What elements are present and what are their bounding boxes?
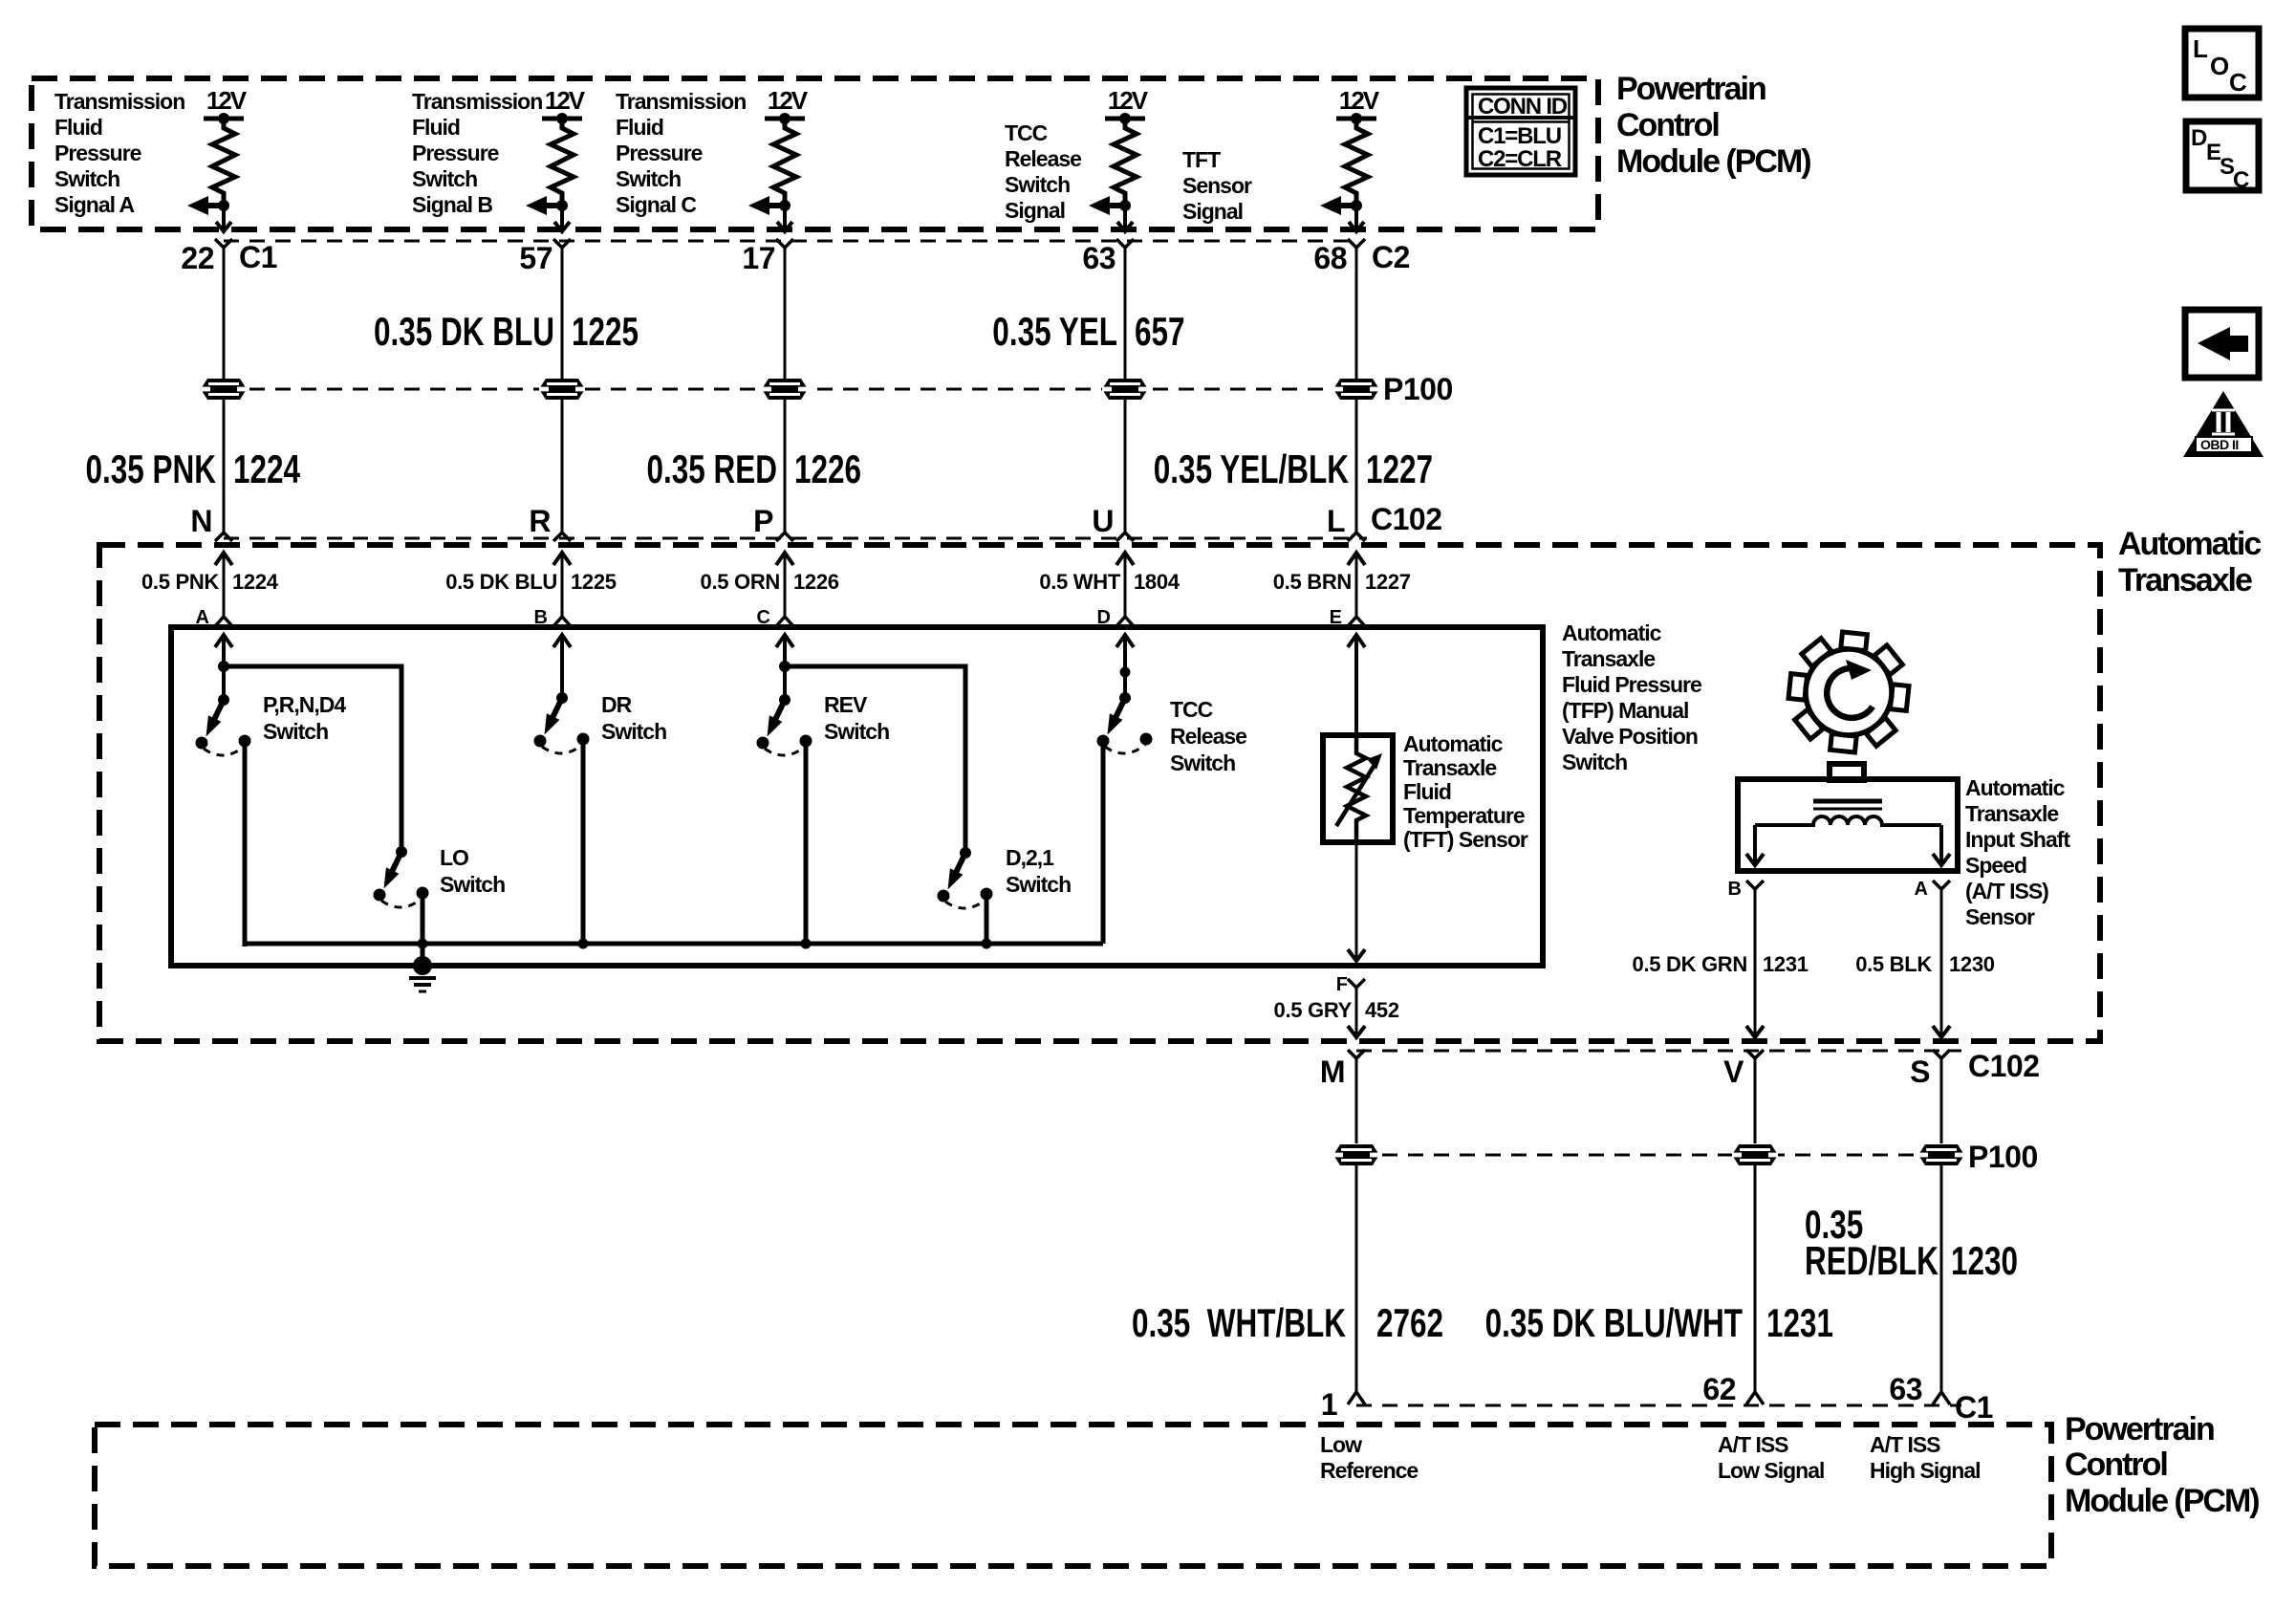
coil lead B with arrow bbox=[1746, 825, 1764, 865]
label: A/T ISS High Signal bbox=[1870, 1432, 1981, 1483]
male pin arrow into transaxle, wire 3 bbox=[776, 553, 793, 617]
wire label 0.35 YEL 657 bbox=[992, 309, 1184, 355]
label: Automatic Transaxle Fluid Temperature (TFT) Sensor bbox=[1403, 731, 1528, 852]
signal tap node wire 3 bbox=[779, 200, 791, 211]
svg-text:Valve Position: Valve Position bbox=[1562, 724, 1698, 749]
sensor core lines bbox=[1813, 801, 1882, 809]
label: DR Switch bbox=[601, 692, 666, 744]
ground bbox=[409, 956, 436, 991]
svg-text:0.35 YEL: 0.35 YEL bbox=[992, 309, 1117, 355]
svg-text:Signal: Signal bbox=[1005, 198, 1065, 223]
svg-text:L: L bbox=[1327, 504, 1345, 538]
C102 pin N female connector symbol bbox=[215, 533, 232, 541]
svg-text:22: 22 bbox=[181, 241, 214, 275]
svg-text:TCC: TCC bbox=[1170, 697, 1213, 722]
wire LO right contact to ground bus bbox=[421, 893, 425, 944]
wire pin B to DR switch bbox=[560, 635, 564, 698]
ground bus inside TFP switch bbox=[245, 942, 1103, 946]
label: Transmission Fluid Pressure Switch Signal C bbox=[616, 89, 746, 217]
svg-text:F: F bbox=[1336, 974, 1348, 995]
svg-text:Signal B: Signal B bbox=[412, 192, 492, 217]
svg-text:63: 63 bbox=[1889, 1372, 1922, 1406]
svg-text:12V: 12V bbox=[206, 86, 248, 115]
label: Powertrain Control Module (PCM) bottom right bbox=[2065, 1411, 2259, 1519]
wire D,2,1 right contact to ground bus bbox=[985, 894, 989, 944]
svg-text:12V: 12V bbox=[1339, 86, 1380, 115]
signal arrow (to left) wire 2 bbox=[526, 196, 562, 215]
wire REV right contact to ground bus bbox=[804, 741, 809, 944]
svg-text:(A/T ISS): (A/T ISS) bbox=[1965, 879, 2048, 903]
svg-text:Switch: Switch bbox=[824, 719, 889, 744]
signal arrow (to left) wire 4 bbox=[1089, 196, 1125, 215]
svg-text:R: R bbox=[529, 504, 551, 538]
label: TFT Sensor Signal bbox=[1182, 147, 1252, 224]
back arrow button icon bbox=[2185, 310, 2259, 378]
C102 pin V female connector symbol bbox=[1746, 1050, 1764, 1143]
wire label 0.5 BRN 1227 bbox=[1273, 570, 1411, 594]
svg-text:Fluid: Fluid bbox=[1403, 779, 1451, 804]
label: REV Switch bbox=[824, 692, 889, 744]
svg-text:M: M bbox=[1320, 1055, 1345, 1089]
svg-text:657: 657 bbox=[1135, 309, 1185, 355]
svg-text:Pressure: Pressure bbox=[412, 141, 499, 165]
LO switch bbox=[374, 846, 429, 907]
12V node bar wire 2 bbox=[542, 113, 582, 124]
svg-text:0.5 BRN: 0.5 BRN bbox=[1273, 570, 1352, 594]
svg-text:Fluid: Fluid bbox=[412, 115, 460, 140]
wire segment P100 to C102, wire 2 bbox=[561, 400, 564, 533]
label: A/T ISS Low Signal bbox=[1718, 1432, 1824, 1483]
C102 pin M female connector symbol bbox=[1348, 1050, 1365, 1143]
svg-text:RED/BLK: RED/BLK bbox=[1805, 1238, 1939, 1284]
male pin arrow into TFP switch, pin C bbox=[776, 635, 793, 647]
svg-text:Release: Release bbox=[1170, 724, 1246, 749]
svg-text:Switch: Switch bbox=[54, 166, 119, 191]
A/T ISS sensor box bbox=[1738, 779, 1958, 871]
arrow wire F out of transaxle box bbox=[1348, 1026, 1365, 1037]
wire pin A to P,R,N,D4 switch bbox=[222, 635, 226, 700]
svg-text:D,2,1: D,2,1 bbox=[1006, 845, 1054, 870]
arrow wire B out of transaxle box bbox=[1746, 1026, 1764, 1037]
branch wire to D,2,1 switch bbox=[785, 666, 965, 853]
svg-text:D: D bbox=[2191, 125, 2207, 151]
svg-text:0.35 DK BLU/WHT: 0.35 DK BLU/WHT bbox=[1485, 1300, 1744, 1346]
svg-text:68: 68 bbox=[1313, 241, 1347, 275]
resistor R2 (pull-up inside PCM) bbox=[551, 119, 574, 201]
wire TCC left contact to ground bus bbox=[1101, 743, 1106, 944]
svg-text:Transaxle: Transaxle bbox=[1965, 801, 2058, 826]
pin 17 female connector symbol bbox=[776, 239, 793, 248]
svg-text:Switch: Switch bbox=[1006, 872, 1071, 897]
svg-text:Module (PCM): Module (PCM) bbox=[2065, 1483, 2259, 1519]
svg-text:C: C bbox=[2233, 167, 2249, 193]
svg-text:0.5 WHT: 0.5 WHT bbox=[1039, 570, 1121, 594]
male pin arrow into transaxle, wire 4 bbox=[1116, 553, 1134, 617]
label: Powertrain Control Module (PCM) top right bbox=[1616, 71, 1810, 180]
wire label 0.35 RED 1226 bbox=[646, 446, 861, 492]
svg-text:U: U bbox=[1092, 504, 1114, 538]
svg-text:Transmission: Transmission bbox=[616, 89, 746, 114]
PCM pin 62 male connector symbol bbox=[1746, 1392, 1764, 1404]
12V node bar wire 4 bbox=[1105, 113, 1145, 124]
12V node bar wire 1 bbox=[204, 113, 244, 124]
C102 pin P female connector symbol bbox=[776, 533, 793, 541]
svg-text:63: 63 bbox=[1082, 241, 1116, 275]
wire segment pin row to P100, wire 4 bbox=[1124, 248, 1127, 379]
TFP switch pin E female connector symbol bbox=[1348, 617, 1365, 626]
svg-text:(TFT) Sensor: (TFT) Sensor bbox=[1403, 827, 1528, 852]
wire P,R,N,D4 right contact to ground bus bbox=[243, 741, 248, 946]
svg-text:1227: 1227 bbox=[1365, 570, 1411, 594]
wire segment P100 to C102, wire 4 bbox=[1124, 400, 1127, 533]
label: Automatic Transaxle Fluid Pressure (TFP) Manual Valve Position Switch bbox=[1562, 620, 1701, 774]
svg-text:0.5 DK BLU: 0.5 DK BLU bbox=[445, 570, 557, 594]
thermistor (TFT) symbol bbox=[1336, 738, 1382, 839]
wire label 0.5 BLK 1230 bbox=[1855, 952, 1995, 976]
svg-text:57: 57 bbox=[519, 241, 552, 275]
svg-text:0.35 PNK: 0.35 PNK bbox=[85, 446, 216, 492]
svg-text:(TFP) Manual: (TFP) Manual bbox=[1562, 698, 1688, 723]
svg-text:0.35 YEL/BLK: 0.35 YEL/BLK bbox=[1154, 446, 1349, 492]
svg-text:1230: 1230 bbox=[1951, 1238, 2018, 1284]
svg-text:C1: C1 bbox=[239, 240, 277, 274]
P100 harness dashed line bbox=[224, 388, 1356, 391]
P,R,N,D4 switch bbox=[196, 694, 251, 755]
wire pin D to TCC release switch bbox=[1123, 635, 1127, 698]
coil lead A with arrow bbox=[1933, 825, 1950, 865]
pin 68 female connector symbol bbox=[1348, 239, 1365, 248]
svg-text:Transmission: Transmission bbox=[54, 89, 184, 114]
svg-text:Switch: Switch bbox=[1562, 750, 1627, 774]
node on TCC wire bbox=[1120, 667, 1131, 678]
inline connector P100 terminal, wire 4 bbox=[1102, 379, 1148, 400]
wire segment P100 to PCM, low ref bbox=[1355, 1165, 1358, 1391]
svg-text:Transmission: Transmission bbox=[412, 89, 542, 114]
ground bus junction bbox=[578, 939, 589, 949]
wire label 0.35 PNK 1224 bbox=[85, 446, 300, 492]
svg-text:P: P bbox=[753, 504, 773, 538]
inline connector P100 terminal, wire V bbox=[1732, 1144, 1778, 1165]
label: Automatic Transaxle Input Shaft Speed (A/T ISS) Sensor bbox=[1965, 775, 2070, 929]
svg-text:Control: Control bbox=[1616, 107, 1719, 143]
inline connector P100 terminal, wire 1 bbox=[201, 379, 247, 400]
svg-text:Automatic: Automatic bbox=[1403, 731, 1504, 756]
label: LO Switch bbox=[440, 845, 505, 897]
A/T ISS sensor mounting tab bbox=[1830, 764, 1864, 780]
svg-text:Switch: Switch bbox=[1005, 172, 1070, 197]
svg-text:17: 17 bbox=[742, 241, 775, 275]
wire segment P100 to C102, wire 3 bbox=[784, 400, 787, 533]
DESC button icon bbox=[2186, 121, 2259, 193]
connector line C1 bottom (thin dashed) bbox=[1356, 1404, 1961, 1407]
svg-text:1227: 1227 bbox=[1366, 446, 1433, 492]
ground bus junction bbox=[982, 939, 992, 949]
wire segment pin row to P100, wire 1 bbox=[223, 248, 226, 379]
input shaft gear icon bbox=[1788, 632, 1909, 752]
svg-text:O: O bbox=[2210, 52, 2229, 80]
C102 pin S female connector symbol bbox=[1933, 1050, 1950, 1143]
svg-text:0.5 ORN: 0.5 ORN bbox=[701, 570, 780, 594]
wire label 0.5 DK GRN 1231 bbox=[1633, 952, 1809, 976]
svg-text:0.35 WHT/BLK: 0.35 WHT/BLK bbox=[1132, 1300, 1346, 1346]
signal tap node wire 2 bbox=[556, 200, 568, 211]
svg-text:Pressure: Pressure bbox=[616, 141, 703, 165]
svg-text:Automatic: Automatic bbox=[1965, 775, 2066, 800]
svg-text:Speed: Speed bbox=[1965, 853, 2026, 878]
male pin arrow into TFP switch, pin A bbox=[215, 635, 232, 647]
Automatic Transaxle dashed box bbox=[99, 545, 2100, 1041]
svg-text:TFT: TFT bbox=[1182, 147, 1221, 172]
wire label 0.35 WHT/BLK 2762 bbox=[1132, 1300, 1443, 1346]
svg-text:C2: C2 bbox=[1372, 240, 1410, 274]
svg-text:1224: 1224 bbox=[233, 446, 300, 492]
inline connector P100 terminal, wire 2 bbox=[539, 379, 585, 400]
svg-text:Input Shaft: Input Shaft bbox=[1965, 827, 2070, 852]
LOC button icon bbox=[2185, 29, 2259, 98]
C102 pin L female connector symbol bbox=[1348, 533, 1365, 541]
wire pin E to TFT sensor bbox=[1354, 635, 1358, 735]
TCC release switch bbox=[1097, 692, 1153, 753]
wire label 0.35 YEL/BLK 1227 bbox=[1154, 446, 1433, 492]
svg-text:0.5 BLK: 0.5 BLK bbox=[1855, 952, 1932, 976]
svg-text:1230: 1230 bbox=[1949, 952, 1995, 976]
svg-text:Automatic: Automatic bbox=[1562, 620, 1662, 645]
arrow wire A out of transaxle box bbox=[1933, 1026, 1950, 1037]
label: P,R,N,D4 Switch bbox=[263, 692, 346, 744]
svg-text:Switch: Switch bbox=[601, 719, 666, 744]
label: Transmission Fluid Pressure Switch Signal B bbox=[412, 89, 542, 217]
pin exit arrow wire 2 bbox=[554, 206, 570, 231]
svg-text:L: L bbox=[2193, 34, 2208, 63]
svg-text:A/T ISS: A/T ISS bbox=[1718, 1432, 1788, 1457]
svg-text:Temperature: Temperature bbox=[1403, 803, 1525, 828]
label: D,2,1 Switch bbox=[1006, 845, 1071, 897]
wire label 0.35 DK BLU 1225 bbox=[374, 309, 639, 355]
svg-text:452: 452 bbox=[1365, 998, 1399, 1022]
Powertrain Control Module (PCM) bottom box bbox=[95, 1425, 2051, 1566]
svg-text:C1=BLU: C1=BLU bbox=[1478, 123, 1561, 149]
svg-text:Sensor: Sensor bbox=[1182, 173, 1252, 198]
svg-text:P100: P100 bbox=[1383, 372, 1453, 406]
svg-text:Transaxle: Transaxle bbox=[2118, 562, 2252, 598]
TFT sensor box bbox=[1323, 735, 1393, 842]
svg-text:Switch: Switch bbox=[1170, 751, 1235, 775]
male pin arrow into transaxle, wire 2 bbox=[553, 553, 571, 617]
svg-text:Release: Release bbox=[1005, 146, 1081, 171]
DR switch bbox=[534, 692, 590, 753]
svg-text:A/T ISS: A/T ISS bbox=[1870, 1432, 1940, 1457]
label: TCC Release Switch bbox=[1170, 697, 1246, 775]
svg-text:62: 62 bbox=[1702, 1372, 1736, 1406]
signal tap node wire 4 bbox=[1119, 200, 1131, 211]
junction node at P,R,N,D4 switch bbox=[218, 661, 229, 672]
wire segment P100 to C102, wire 5 bbox=[1355, 400, 1358, 533]
svg-text:V: V bbox=[1723, 1055, 1744, 1089]
svg-text:C1: C1 bbox=[1955, 1390, 1993, 1425]
male pin arrow into transaxle, wire 1 bbox=[215, 553, 232, 617]
svg-text:0.5 GRY: 0.5 GRY bbox=[1274, 998, 1353, 1022]
svg-text:Reference: Reference bbox=[1320, 1458, 1418, 1483]
svg-text:1: 1 bbox=[1321, 1387, 1337, 1422]
pin exit arrow wire 4 bbox=[1117, 206, 1133, 231]
REV switch bbox=[757, 694, 812, 755]
pin 22 female connector symbol bbox=[215, 239, 232, 248]
svg-text:Signal: Signal bbox=[1182, 199, 1243, 224]
pin exit arrow wire 3 bbox=[777, 206, 792, 231]
signal arrow (to left) wire 3 bbox=[748, 196, 785, 215]
svg-text:Pressure: Pressure bbox=[54, 141, 141, 165]
inline connector P100 terminal, wire 3 bbox=[762, 379, 808, 400]
svg-text:12V: 12V bbox=[1108, 86, 1149, 115]
svg-text:Switch: Switch bbox=[412, 166, 477, 191]
svg-text:Module (PCM): Module (PCM) bbox=[1616, 143, 1810, 180]
svg-text:C102: C102 bbox=[1371, 502, 1442, 536]
PCM pin 63 male connector symbol bbox=[1933, 1392, 1950, 1404]
svg-text:REV: REV bbox=[824, 692, 868, 717]
connector line C1/C2 (thin dashed) bbox=[224, 240, 1356, 243]
male pin arrow into TFP switch, pin E bbox=[1348, 635, 1365, 647]
sensor pickup coil bbox=[1755, 816, 1941, 825]
TFP manual valve position switch box bbox=[171, 627, 1543, 966]
TFP switch pin D female connector symbol bbox=[1116, 617, 1134, 626]
signal arrow (to left) wire 5 bbox=[1320, 196, 1356, 215]
wire segment pin row to P100, wire 3 bbox=[784, 248, 787, 379]
svg-text:A: A bbox=[1915, 879, 1928, 900]
svg-text:1225: 1225 bbox=[572, 309, 639, 355]
label: Transmission Fluid Pressure Switch Signal A bbox=[54, 89, 184, 217]
svg-text:Switch: Switch bbox=[616, 166, 681, 191]
svg-text:Powertrain: Powertrain bbox=[1616, 71, 1765, 107]
TFP switch pin F female connector symbol bbox=[1348, 979, 1365, 1037]
12V node bar wire 3 bbox=[765, 113, 805, 124]
C102 pin U female connector symbol bbox=[1116, 533, 1134, 541]
svg-text:C: C bbox=[2229, 68, 2247, 97]
wire segment P100 to PCM, ISS low bbox=[1754, 1165, 1757, 1391]
svg-text:CONN ID: CONN ID bbox=[1478, 94, 1568, 120]
svg-text:Automatic: Automatic bbox=[2118, 526, 2261, 562]
svg-text:C2=CLR: C2=CLR bbox=[1478, 146, 1562, 172]
male pin arrow into TFP switch, pin B bbox=[553, 635, 571, 647]
ground bus junction bbox=[801, 939, 812, 949]
svg-text:Fluid: Fluid bbox=[616, 115, 663, 140]
wire label 0.5 ORN 1226 bbox=[701, 570, 839, 594]
svg-text:Switch: Switch bbox=[440, 872, 505, 897]
svg-text:OBD II: OBD II bbox=[2200, 437, 2239, 452]
connector line C102 (thin dashed) bbox=[224, 537, 1367, 540]
label: TCC Release Switch Signal bbox=[1005, 120, 1081, 223]
svg-text:C102: C102 bbox=[1968, 1049, 2040, 1083]
svg-text:0.35 DK BLU: 0.35 DK BLU bbox=[374, 309, 554, 355]
svg-text:Signal C: Signal C bbox=[616, 192, 696, 217]
P100 harness dashed line bottom bbox=[1356, 1154, 1941, 1157]
svg-text:12V: 12V bbox=[768, 86, 809, 115]
svg-text:LO: LO bbox=[440, 845, 468, 870]
CONN ID table bbox=[1466, 88, 1575, 175]
signal tap node wire 5 bbox=[1351, 200, 1362, 211]
label: Automatic Transaxle bbox=[2118, 526, 2261, 598]
inline connector P100 terminal, wire S bbox=[1918, 1144, 1964, 1165]
wire TFT sensor to box bottom with arrow bbox=[1348, 842, 1365, 961]
ground bus junction bbox=[418, 939, 428, 949]
svg-text:1231: 1231 bbox=[1766, 1300, 1833, 1346]
svg-text:Fluid Pressure: Fluid Pressure bbox=[1562, 672, 1701, 697]
sensor pin B female connector symbol bbox=[1746, 881, 1764, 1037]
wire DR right contact to ground bus bbox=[581, 739, 586, 944]
connector line C102 bottom (thin dashed) bbox=[1356, 1050, 1961, 1053]
svg-text:High Signal: High Signal bbox=[1870, 1458, 1981, 1483]
wire segment P100 to PCM, ISS high bbox=[1940, 1165, 1943, 1391]
Powertrain Control Module (PCM) top box bbox=[32, 78, 1598, 229]
resistor R4 (pull-up inside PCM) bbox=[1114, 119, 1137, 201]
wire segment P100 to C102, wire 1 bbox=[223, 400, 226, 533]
svg-text:Low: Low bbox=[1320, 1432, 1362, 1457]
svg-text:Fluid: Fluid bbox=[54, 115, 102, 140]
resistor R5 (pull-up inside PCM) bbox=[1345, 119, 1368, 201]
TFP switch pin A female connector symbol bbox=[215, 617, 232, 626]
D,2,1 switch bbox=[938, 847, 993, 908]
svg-text:S: S bbox=[1910, 1055, 1930, 1089]
svg-text:Signal A: Signal A bbox=[54, 192, 135, 217]
svg-text:1224: 1224 bbox=[232, 570, 279, 594]
svg-text:TCC: TCC bbox=[1005, 120, 1048, 145]
inline connector P100 terminal, wire 5 bbox=[1333, 379, 1379, 400]
svg-text:P100: P100 bbox=[1968, 1140, 2038, 1174]
svg-text:Control: Control bbox=[2065, 1447, 2167, 1483]
svg-text:Transaxle: Transaxle bbox=[1403, 755, 1496, 780]
svg-text:0.5 PNK: 0.5 PNK bbox=[141, 570, 219, 594]
svg-text:1804: 1804 bbox=[1134, 570, 1180, 594]
svg-text:12V: 12V bbox=[545, 86, 586, 115]
junction node at REV switch bbox=[779, 661, 791, 672]
12V node bar wire 5 bbox=[1336, 113, 1376, 124]
sensor pin A female connector symbol bbox=[1933, 881, 1950, 1037]
svg-text:1231: 1231 bbox=[1763, 952, 1809, 976]
resistor R1 (pull-up inside PCM) bbox=[212, 119, 235, 201]
pin 63 female connector symbol bbox=[1116, 239, 1134, 248]
svg-text:N: N bbox=[190, 504, 212, 538]
svg-text:Powertrain: Powertrain bbox=[2065, 1411, 2214, 1447]
svg-text:0.5 DK GRN: 0.5 DK GRN bbox=[1633, 952, 1747, 976]
resistor R3 (pull-up inside PCM) bbox=[773, 119, 796, 201]
wire segment pin row to P100, wire 2 bbox=[561, 248, 564, 379]
wire label 0.5 GRY 452 bbox=[1274, 998, 1399, 1022]
wire label 0.5 WHT 1804 bbox=[1039, 570, 1180, 594]
svg-text:1226: 1226 bbox=[793, 570, 839, 594]
svg-text:0.35 RED: 0.35 RED bbox=[646, 446, 777, 492]
label: Low Reference bbox=[1320, 1432, 1418, 1483]
PCM pin 1 male connector symbol bbox=[1348, 1392, 1365, 1404]
signal tap node wire 1 bbox=[218, 200, 229, 211]
male pin arrow into transaxle, wire 5 bbox=[1348, 553, 1365, 617]
wire label 0.35 RED/BLK 1230 bbox=[1805, 1202, 2018, 1284]
svg-text:Switch: Switch bbox=[263, 719, 328, 744]
svg-text:DR: DR bbox=[601, 692, 633, 717]
wire label 0.35 DK BLU/WHT 1231 bbox=[1485, 1300, 1833, 1346]
svg-text:1225: 1225 bbox=[571, 570, 617, 594]
svg-text:Transaxle: Transaxle bbox=[1562, 646, 1655, 671]
C102 pin R female connector symbol bbox=[553, 533, 571, 541]
signal arrow (to left) wire 1 bbox=[187, 196, 224, 215]
pin 57 female connector symbol bbox=[553, 239, 571, 248]
svg-text:B: B bbox=[1728, 879, 1742, 900]
svg-text:Sensor: Sensor bbox=[1965, 904, 2035, 929]
OBD II triangle icon bbox=[2183, 391, 2264, 457]
svg-text:2762: 2762 bbox=[1376, 1300, 1443, 1346]
wire segment pin row to P100, wire 5 bbox=[1355, 248, 1358, 379]
pin exit arrow wire 1 bbox=[216, 206, 231, 231]
TFP switch pin B female connector symbol bbox=[553, 617, 571, 626]
pin exit arrow wire 5 bbox=[1349, 206, 1364, 231]
